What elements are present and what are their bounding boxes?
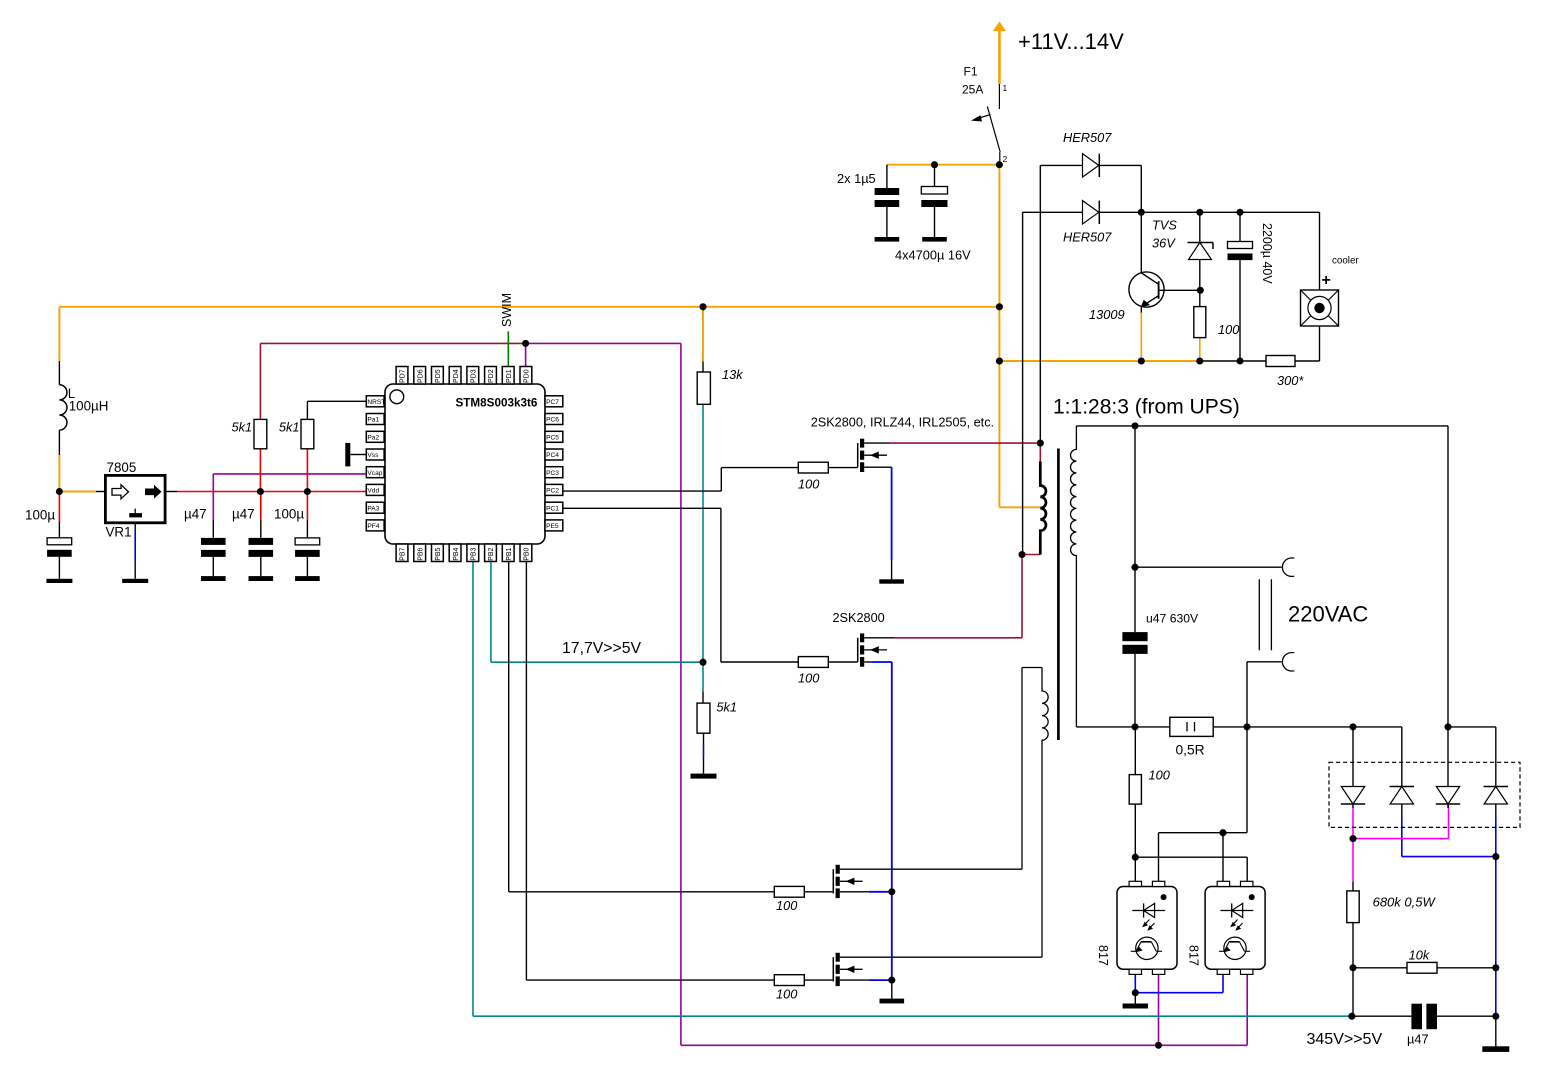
svg-text:+11V...14V: +11V...14V xyxy=(1018,29,1124,54)
svg-text:PC3: PC3 xyxy=(546,470,559,477)
svg-text:PC1: PC1 xyxy=(546,505,559,512)
svg-text:100: 100 xyxy=(798,671,820,686)
svg-text:2200µ 40V: 2200µ 40V xyxy=(1260,223,1274,284)
svg-text:PC2: PC2 xyxy=(546,488,559,495)
svg-text:25A: 25A xyxy=(962,83,983,97)
svg-text:300*: 300* xyxy=(1277,373,1304,388)
svg-text:Vcap: Vcap xyxy=(367,470,382,477)
svg-text:345V>>5V: 345V>>5V xyxy=(1307,1031,1383,1048)
svg-text:100: 100 xyxy=(776,986,798,1001)
svg-text:7805: 7805 xyxy=(107,460,137,475)
svg-text:100: 100 xyxy=(776,898,798,913)
svg-text:PB2: PB2 xyxy=(488,547,495,560)
svg-text:100: 100 xyxy=(798,477,820,492)
svg-text:0,5R: 0,5R xyxy=(1176,743,1205,758)
svg-text:PD5: PD5 xyxy=(435,369,442,383)
svg-text:Pa2: Pa2 xyxy=(367,434,379,441)
svg-text:cooler: cooler xyxy=(1332,256,1359,267)
svg-text:5k1: 5k1 xyxy=(232,420,253,435)
svg-text:PC5: PC5 xyxy=(546,434,559,441)
svg-text:µ47: µ47 xyxy=(232,507,255,522)
svg-text:PF4: PF4 xyxy=(367,523,379,530)
svg-text:1: 1 xyxy=(1003,83,1008,93)
svg-text:13009: 13009 xyxy=(1089,307,1125,322)
svg-text:NRST: NRST xyxy=(367,399,385,406)
svg-text:817: 817 xyxy=(1096,945,1110,966)
svg-text:2SK2800: 2SK2800 xyxy=(833,611,885,625)
svg-text:PB7: PB7 xyxy=(400,547,407,560)
svg-text:Vss: Vss xyxy=(367,452,379,459)
svg-text:17,7V>>5V: 17,7V>>5V xyxy=(562,640,642,657)
svg-text:PD4: PD4 xyxy=(453,369,460,383)
svg-text:680k 0,5W: 680k 0,5W xyxy=(1373,895,1437,910)
svg-text:PA3: PA3 xyxy=(367,505,379,512)
svg-text:10k: 10k xyxy=(1409,948,1430,963)
svg-text:PB5: PB5 xyxy=(435,547,442,560)
svg-text:100µ: 100µ xyxy=(274,507,304,522)
svg-text:2x 1µ5: 2x 1µ5 xyxy=(837,171,876,186)
svg-text:1:1:28:3 (from UPS): 1:1:28:3 (from UPS) xyxy=(1053,396,1240,419)
svg-text:2: 2 xyxy=(1003,154,1008,164)
svg-text:HER507: HER507 xyxy=(1063,130,1112,145)
svg-text:PB3: PB3 xyxy=(471,547,478,560)
svg-text:5k1: 5k1 xyxy=(716,700,737,715)
svg-text:STM8S003k3t6: STM8S003k3t6 xyxy=(456,397,538,410)
svg-text:µ47: µ47 xyxy=(184,507,207,522)
svg-text:100µH: 100µH xyxy=(69,399,109,414)
svg-text:HER507: HER507 xyxy=(1063,230,1112,245)
svg-text:13k: 13k xyxy=(722,367,743,382)
svg-text:PC7: PC7 xyxy=(546,399,559,406)
svg-text:PC4: PC4 xyxy=(546,452,559,459)
svg-text:u47 630V: u47 630V xyxy=(1146,612,1199,626)
svg-text:100: 100 xyxy=(1149,768,1171,783)
svg-text:PC6: PC6 xyxy=(546,417,559,424)
svg-text:PB4: PB4 xyxy=(453,547,460,560)
svg-text:36V: 36V xyxy=(1152,236,1176,251)
svg-text:VR1: VR1 xyxy=(106,525,132,540)
svg-text:PD6: PD6 xyxy=(417,369,424,383)
svg-text:PD1: PD1 xyxy=(506,369,513,383)
svg-text:100: 100 xyxy=(1218,322,1240,337)
svg-text:4x4700µ 16V: 4x4700µ 16V xyxy=(895,248,971,263)
svg-text:2SK2800, IRLZ44, IRL2505, etc.: 2SK2800, IRLZ44, IRL2505, etc. xyxy=(811,416,994,430)
svg-text:µ47: µ47 xyxy=(1407,1032,1429,1047)
svg-text:+: + xyxy=(1322,272,1331,289)
svg-text:Vdd: Vdd xyxy=(367,488,379,495)
svg-text:PD0: PD0 xyxy=(524,369,531,383)
svg-text:PD2: PD2 xyxy=(488,369,495,383)
svg-text:PB1: PB1 xyxy=(506,547,513,560)
svg-text:100µ: 100µ xyxy=(25,508,55,523)
svg-text:817: 817 xyxy=(1187,945,1201,966)
svg-text:SWIM: SWIM xyxy=(500,293,514,327)
svg-text:F1: F1 xyxy=(964,65,978,79)
svg-text:PB0: PB0 xyxy=(524,547,531,560)
svg-text:PD7: PD7 xyxy=(400,369,407,383)
svg-text:5k1: 5k1 xyxy=(279,420,300,435)
svg-text:Pa1: Pa1 xyxy=(367,417,379,424)
svg-text:PB6: PB6 xyxy=(417,547,424,560)
svg-text:PD3: PD3 xyxy=(471,369,478,383)
svg-text:220VAC: 220VAC xyxy=(1288,602,1368,627)
svg-text:PE5: PE5 xyxy=(546,523,559,530)
svg-text:TVS: TVS xyxy=(1152,218,1177,233)
